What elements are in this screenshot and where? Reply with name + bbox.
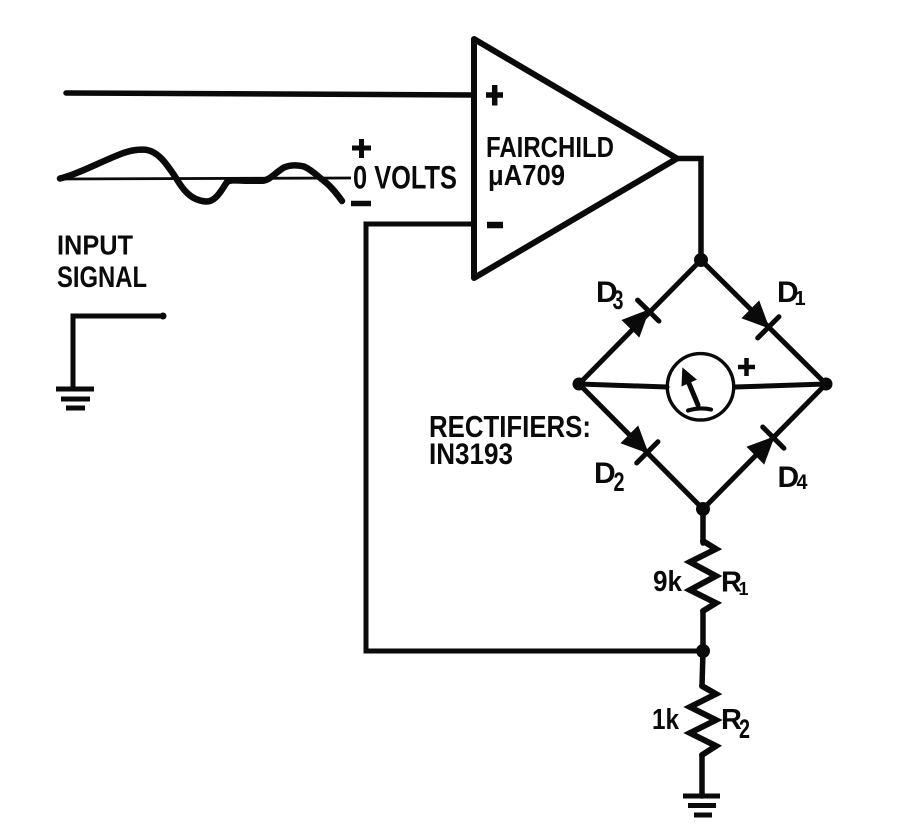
wire bridge branch left-top — [579, 260, 701, 384]
wire op-amp output — [677, 159, 701, 261]
label D3 — [596, 276, 624, 315]
svg-text:D: D — [594, 457, 616, 490]
node bridge left — [573, 378, 586, 391]
label meter plus — [738, 358, 755, 376]
wire bridge branch left-bottom — [579, 384, 703, 509]
input signal waveform — [60, 150, 342, 202]
node bridge top — [694, 253, 708, 267]
label R2 — [721, 704, 750, 744]
svg-text:1: 1 — [795, 288, 806, 310]
op-amp minus input label — [487, 222, 503, 229]
meter M1 — [667, 354, 733, 420]
wire meter left — [579, 384, 667, 387]
svg-text:SIGNAL: SIGNAL — [57, 261, 147, 294]
wire bottom node to R1 — [700, 509, 706, 543]
label plus above 0 volts — [352, 139, 371, 158]
label D4 — [778, 461, 808, 494]
svg-text:1k: 1k — [652, 704, 680, 736]
wire bridge branch bottom-right — [703, 384, 826, 509]
ground bottom — [683, 796, 720, 815]
ground input signal — [56, 389, 94, 408]
wire input signal stub — [73, 316, 163, 389]
svg-text:μA709: μA709 — [488, 160, 565, 192]
svg-text:0 VOLTS: 0 VOLTS — [353, 160, 457, 196]
meter needle — [683, 370, 711, 411]
wire R1 to junction — [700, 611, 706, 651]
label D2 — [594, 457, 625, 497]
svg-text:2: 2 — [614, 467, 625, 497]
wire noninverting input — [66, 93, 474, 95]
resistor R1 — [690, 541, 716, 611]
node bridge right — [820, 378, 833, 391]
svg-text:INPUT: INPUT — [57, 230, 133, 261]
diode D4 — [745, 427, 784, 466]
label D1 — [777, 276, 806, 310]
svg-text:4: 4 — [797, 471, 808, 494]
wire bridge branch top-right — [701, 260, 826, 384]
wire R2 to ground — [699, 755, 705, 796]
wire feedback — [366, 224, 703, 651]
node bridge bottom — [696, 502, 710, 516]
svg-text:1: 1 — [739, 579, 749, 599]
svg-text:IN3193: IN3193 — [429, 438, 513, 471]
resistor R2 — [690, 686, 716, 755]
wire junction to R2 — [702, 651, 703, 686]
op-amp U1 — [474, 39, 677, 278]
label R1 — [721, 567, 749, 600]
diode D3 — [620, 300, 659, 339]
svg-text:2: 2 — [739, 714, 750, 744]
diode D2 — [619, 424, 658, 463]
label minus below 0 volts — [351, 201, 371, 207]
node feedback junction — [696, 644, 710, 658]
svg-text:9k: 9k — [653, 566, 683, 598]
op-amp plus input label — [486, 85, 503, 106]
input signal waveform axis — [59, 178, 351, 179]
svg-text:3: 3 — [613, 285, 624, 315]
wire meter right — [735, 384, 826, 387]
diode D1 — [740, 299, 779, 338]
